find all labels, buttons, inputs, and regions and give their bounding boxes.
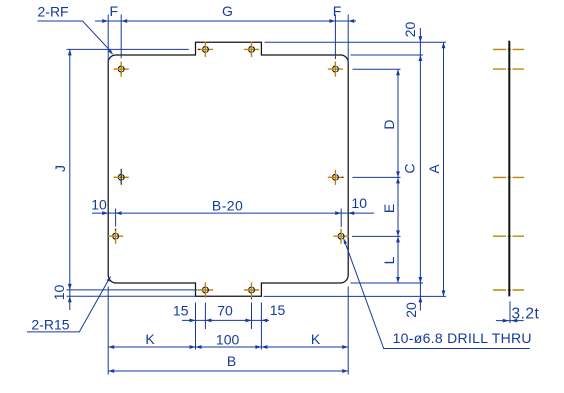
extension line tab bottom edge right	[264, 295, 447, 297]
extension line bottom-left hole column	[115, 209, 117, 227]
extension line bottom tab hole row left	[67, 289, 198, 291]
D E L dimension line right	[396, 69, 400, 283]
svg-text:B-20: B-20	[212, 198, 243, 214]
hole H2 top-right	[328, 62, 343, 77]
extension line tab right edge bottom	[260, 303, 262, 350]
svg-text:10-ø6.8 DRILL THRU: 10-ø6.8 DRILL THRU	[393, 330, 532, 346]
svg-text:F: F	[333, 3, 342, 19]
extension line right hole column top	[334, 15, 336, 60]
extension line top hole row right	[353, 68, 401, 70]
3.2t thickness dimension	[496, 301, 540, 323]
extension line tab hole column right bottom	[251, 303, 253, 330]
svg-text:3.2t: 3.2t	[512, 306, 540, 323]
svg-text:E: E	[381, 204, 397, 213]
hole H7 bottom-left	[108, 229, 123, 244]
hole H3 top tab left	[198, 42, 213, 57]
extension line middle hole row right	[353, 176, 401, 178]
extension line bottom hole row right	[352, 235, 401, 237]
hole H10 bottom tab right	[244, 282, 259, 299]
svg-text:20: 20	[403, 302, 419, 318]
svg-text:B: B	[227, 353, 236, 369]
A dimension line	[442, 42, 446, 296]
hole H6 middle-right	[328, 170, 344, 185]
svg-text:10: 10	[51, 285, 67, 301]
extension line right edge bottom	[347, 287, 349, 375]
extension line bottom-right hole column	[340, 209, 342, 228]
extension line tab bottom edge left	[67, 295, 196, 297]
extension line right edge top	[347, 15, 349, 65]
extension line tab top edge right	[265, 41, 447, 43]
side view hole centerlines	[493, 49, 524, 290]
extension line top recessed edge right	[351, 54, 424, 56]
B dimension row	[108, 369, 348, 373]
hole H1 top-left	[114, 62, 129, 77]
extension line top tab hole row left	[67, 48, 189, 50]
svg-text:K: K	[145, 331, 155, 347]
svg-text:15: 15	[270, 302, 286, 318]
hole H9 bottom tab left	[198, 282, 213, 297]
hole H4 top tab right	[244, 42, 259, 57]
svg-text:10: 10	[351, 195, 367, 211]
leader 2-RF	[38, 4, 114, 55]
svg-text:100: 100	[216, 331, 240, 347]
side view plate line	[508, 41, 510, 297]
leader 2-R15	[27, 276, 111, 333]
svg-text:20: 20	[402, 22, 418, 38]
svg-text:10: 10	[91, 197, 107, 213]
svg-text:2-RF: 2-RF	[38, 4, 69, 20]
K 100 K dimension row	[108, 345, 348, 349]
svg-text:C: C	[402, 163, 418, 173]
svg-text:15: 15	[173, 302, 189, 318]
C and 20 dimension line	[419, 28, 423, 311]
svg-text:F: F	[110, 3, 119, 19]
svg-text:J: J	[52, 165, 68, 172]
plate outline	[108, 42, 348, 296]
extension line tab left edge bottom	[195, 303, 197, 350]
J and 10 dimension line left	[68, 49, 72, 310]
top dimension line F G F	[95, 19, 356, 23]
hole H8 bottom-right	[334, 229, 349, 244]
svg-text:L: L	[381, 256, 397, 264]
extension line bottom recessed edge right	[351, 282, 424, 284]
svg-text:D: D	[381, 119, 397, 129]
extension line tab hole column left bottom	[204, 303, 206, 330]
leader 10-dia6.8 drill thru	[343, 238, 531, 349]
15 70 15 dimension row	[182, 319, 269, 323]
extension line left edge bottom	[107, 287, 109, 375]
svg-text:70: 70	[217, 302, 233, 318]
extension line left hole column top	[120, 15, 122, 59]
B-20 dimension row	[92, 211, 374, 215]
svg-text:K: K	[311, 331, 321, 347]
svg-text:2-R15: 2-R15	[31, 317, 69, 333]
svg-text:G: G	[222, 3, 233, 19]
extension line left edge top	[107, 15, 109, 65]
svg-text:A: A	[426, 164, 442, 174]
hole H5 middle-left	[114, 169, 129, 185]
